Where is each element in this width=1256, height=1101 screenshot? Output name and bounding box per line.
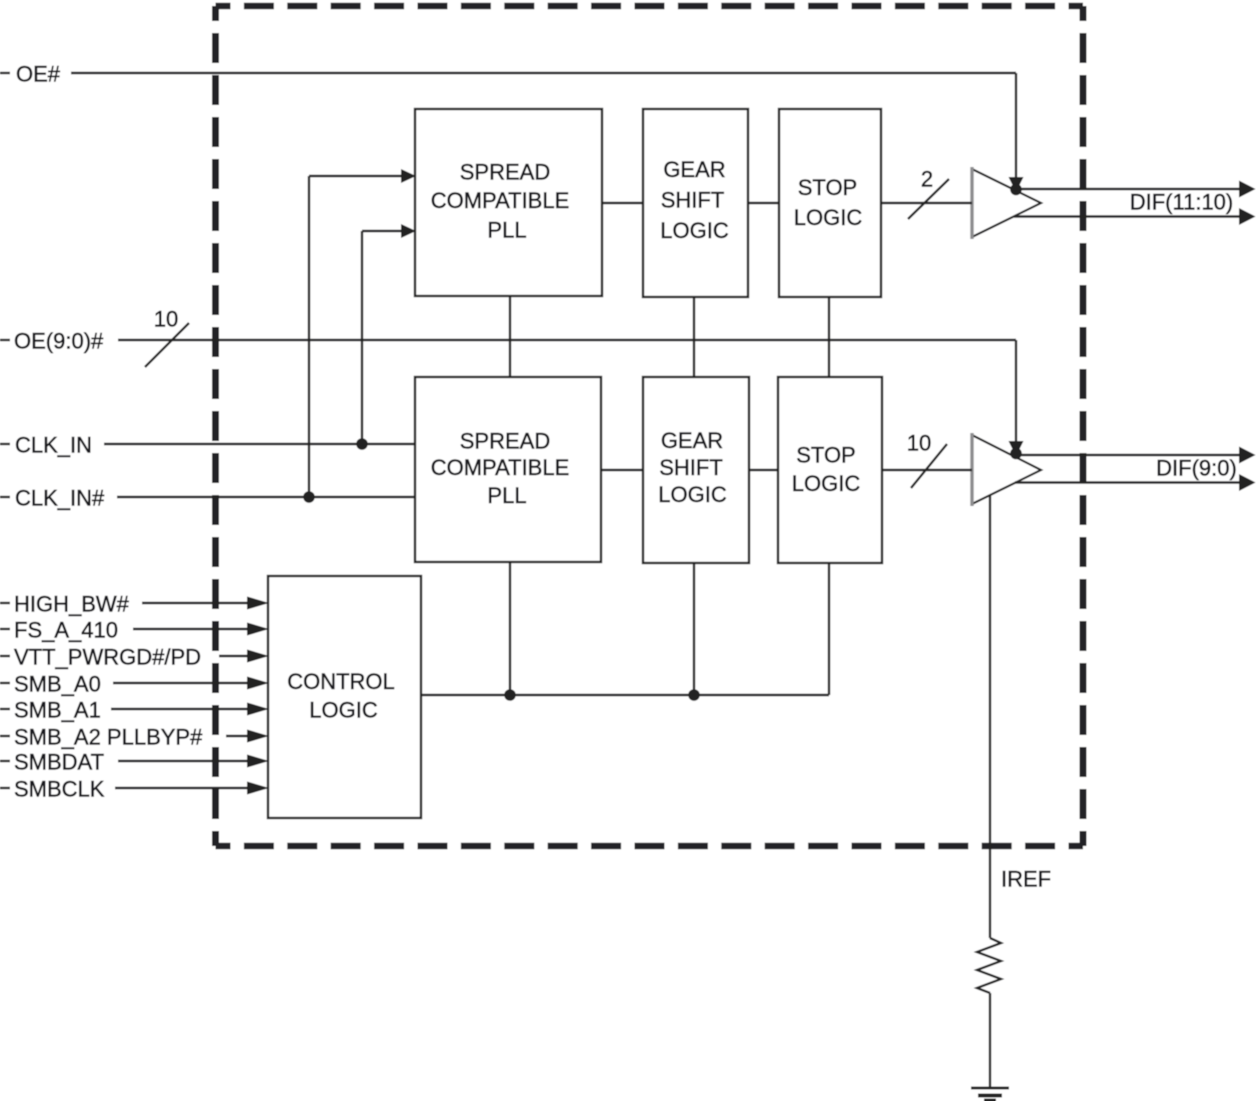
arrowhead: SMB_A1 into U7: [247, 703, 269, 716]
wire: OE(9:0)# net horizontal: [118, 339, 1016, 341]
wire: CLK_IN to U1 lower input: [362, 230, 404, 232]
block U1: upper SPREAD COMPATIBLE PLL: [415, 109, 602, 296]
arrowhead: SMB_A2 PLLBYP# into U7: [247, 730, 269, 743]
wire: U4 bottom stub to control net: [509, 562, 511, 695]
svg-text:STOP: STOP: [798, 175, 858, 200]
wire: OE# net horizontal: [71, 72, 1016, 74]
arrowhead: DIF(11:10) upper: [1239, 181, 1256, 198]
wire: U9 upper output DIF(9:0): [1011, 454, 1241, 456]
svg-text:LOGIC: LOGIC: [792, 471, 861, 496]
svg-text:PLL: PLL: [487, 483, 526, 508]
pin label HIGH_BW#: [0, 592, 130, 617]
junction dot CLK_IN: [356, 438, 368, 450]
svg-text:SMB_A0: SMB_A0: [14, 672, 101, 697]
wire: U6 bottom stub to control net: [828, 563, 830, 695]
svg-text:OE(9:0)#: OE(9:0)#: [14, 329, 104, 354]
arrowhead: FS_A_410 into U7: [247, 623, 269, 636]
svg-text:2: 2: [921, 167, 933, 192]
wire: U2 to U3: [748, 202, 779, 204]
wire: FS_A_410 to U7: [133, 628, 256, 630]
svg-text:LOGIC: LOGIC: [660, 218, 729, 243]
block U6: lower STOP LOGIC: [778, 377, 882, 563]
arrowhead: HIGH_BW# into U7: [247, 597, 269, 610]
junction dot control net at U4 stub: [504, 689, 516, 701]
svg-text:LOGIC: LOGIC: [309, 698, 378, 723]
wire: CLK_IN to U4: [104, 443, 415, 445]
wire: CLK_IN# vertical riser: [308, 176, 310, 497]
arrowhead: DIF(9:0) upper: [1239, 447, 1256, 464]
block U2: upper GEAR SHIFT LOGIC: [643, 109, 748, 297]
svg-text:SMB_A1: SMB_A1: [14, 698, 101, 723]
wire: control logic horizontal net: [421, 694, 829, 696]
pin label OE#: [0, 62, 61, 87]
svg-text:SPREAD: SPREAD: [460, 429, 550, 454]
wire: U5 bottom stub to control net: [693, 563, 695, 695]
pin label SMBCLK: [0, 777, 105, 802]
wire: SMB_A0 to U7: [113, 682, 256, 684]
arrowhead: CLK_IN into U1: [401, 224, 416, 238]
wire: U6 to U9 buffer: [882, 469, 972, 471]
arrowhead: CLK_IN# into U1: [401, 169, 416, 183]
arrowhead: SMB_A0 into U7: [247, 677, 269, 690]
svg-text:GEAR: GEAR: [661, 428, 723, 453]
svg-text:SMBCLK: SMBCLK: [14, 777, 105, 802]
arrowhead: SMBDAT into U7: [247, 755, 269, 768]
chip boundary dashed border: right edge: [1080, 6, 1087, 846]
pin label VTT_PWRGD#/PD: [0, 645, 201, 670]
svg-text:10: 10: [154, 307, 178, 332]
pin label CLK_IN: [0, 433, 92, 458]
wire: U1 bottom to U4 top: [509, 296, 511, 377]
wire: U2 bottom to U5 top: [693, 297, 695, 377]
pin label SMB_A0: [0, 672, 101, 697]
wire: U5 to U6: [749, 469, 778, 471]
block U5: lower GEAR SHIFT LOGIC: [643, 377, 749, 563]
resistor R1 (IREF): [977, 938, 1001, 993]
bus slash on U6-U9 wire: [911, 444, 947, 488]
svg-text:DIF(9:0): DIF(9:0): [1156, 456, 1237, 481]
wire: CLK_IN vertical riser: [361, 231, 363, 444]
svg-text:STOP: STOP: [796, 443, 856, 468]
svg-text:PLL: PLL: [487, 218, 526, 243]
svg-text:LOGIC: LOGIC: [794, 205, 863, 230]
svg-text:HIGH_BW#: HIGH_BW#: [14, 592, 130, 617]
wire: U3 to U8 buffer: [881, 202, 972, 204]
pin label SMB_A2 PLLBYP#: [0, 725, 203, 750]
wire: U9 lower output DIF(9:0): [1015, 481, 1241, 483]
svg-text:GEAR: GEAR: [663, 157, 725, 182]
svg-text:COMPATIBLE: COMPATIBLE: [431, 455, 570, 480]
wire: U3 bottom to U6 top: [828, 297, 830, 377]
wire: U4 to U5: [601, 469, 643, 471]
buffer U9: DIF(9:0) output buffer: [972, 435, 1041, 504]
svg-text:SMB_A2 PLLBYP#: SMB_A2 PLLBYP#: [14, 725, 203, 750]
svg-text:SHIFT: SHIFT: [659, 455, 723, 480]
wire: SMB_A1 to U7: [111, 708, 256, 710]
block U7: CONTROL LOGIC: [268, 576, 421, 818]
pin label SMB_A1: [0, 698, 101, 723]
arrowhead: DIF(11:10) lower: [1239, 208, 1256, 225]
chip boundary dashed border: top edge: [216, 3, 1084, 10]
wire: SMB_A2 PLLBYP# to U7: [226, 735, 256, 737]
svg-text:CLK_IN: CLK_IN: [15, 433, 92, 458]
chip boundary dashed border: bottom edge: [216, 843, 1084, 850]
wire: IREF net from U9 to resistor: [989, 495, 991, 938]
block U4: lower SPREAD COMPATIBLE PLL: [415, 377, 601, 562]
junction dot at U8 enable: [1010, 184, 1022, 196]
wire: CLK_IN# to U4: [117, 496, 415, 498]
svg-text:VTT_PWRGD#/PD: VTT_PWRGD#/PD: [14, 645, 201, 670]
pin label OE(9:0)#: [0, 329, 104, 354]
wire: VTT_PWRGD#/PD to U7: [219, 655, 256, 657]
junction dot control net at U5 stub: [688, 689, 700, 701]
arrowhead: SMBCLK into U7: [247, 782, 269, 795]
wire: SMBDAT to U7: [118, 760, 256, 762]
wire: CLK_IN# to U1 upper input: [309, 175, 404, 177]
arrowhead: OE# into U8: [1009, 177, 1024, 192]
bus slash on OE(9:0)#: [145, 323, 189, 367]
svg-text:CONTROL: CONTROL: [287, 669, 395, 694]
svg-text:SPREAD: SPREAD: [460, 160, 550, 185]
wire: U8 upper output DIF(11:10): [1012, 188, 1241, 190]
wire: resistor to ground: [989, 993, 991, 1087]
svg-text:COMPATIBLE: COMPATIBLE: [431, 188, 570, 213]
block U3: upper STOP LOGIC: [779, 109, 881, 297]
wire: OE# net vertical drop to U8: [1015, 73, 1017, 182]
svg-text:CLK_IN#: CLK_IN#: [15, 486, 105, 511]
svg-text:SMBDAT: SMBDAT: [14, 750, 104, 775]
bus slash on U3-U8 wire: [908, 179, 949, 219]
wire: U8 lower output DIF(11:10): [1014, 215, 1241, 217]
pin label SMBDAT: [0, 750, 104, 775]
buffer U8: DIF(11:10) output buffer: [972, 169, 1041, 237]
svg-text:IREF: IREF: [1001, 867, 1051, 892]
arrowhead: VTT_PWRGD#/PD into U7: [247, 650, 269, 663]
ground symbol: [971, 1088, 1009, 1101]
svg-text:FS_A_410: FS_A_410: [14, 618, 118, 643]
junction dot at U9 enable: [1010, 448, 1022, 460]
wire: SMBCLK to U7: [115, 787, 256, 789]
wire: OE(9:0)# vertical drop to U9: [1015, 340, 1017, 446]
arrowhead: DIF(9:0) lower: [1239, 474, 1256, 491]
wire: U1 to U2: [602, 202, 643, 204]
svg-text:DIF(11:10): DIF(11:10): [1130, 190, 1234, 215]
arrowhead: OE(9:0)# into U9: [1009, 441, 1024, 456]
svg-text:OE#: OE#: [16, 62, 61, 87]
pin label FS_A_410: [0, 618, 118, 643]
svg-text:LOGIC: LOGIC: [658, 482, 727, 507]
chip boundary dashed border: left edge: [212, 6, 219, 846]
svg-text:10: 10: [907, 431, 931, 456]
junction dot CLK_IN#: [303, 491, 315, 503]
pin label CLK_IN#: [0, 486, 105, 511]
svg-text:SHIFT: SHIFT: [661, 188, 725, 213]
wire: HIGH_BW# to U7: [142, 602, 256, 604]
